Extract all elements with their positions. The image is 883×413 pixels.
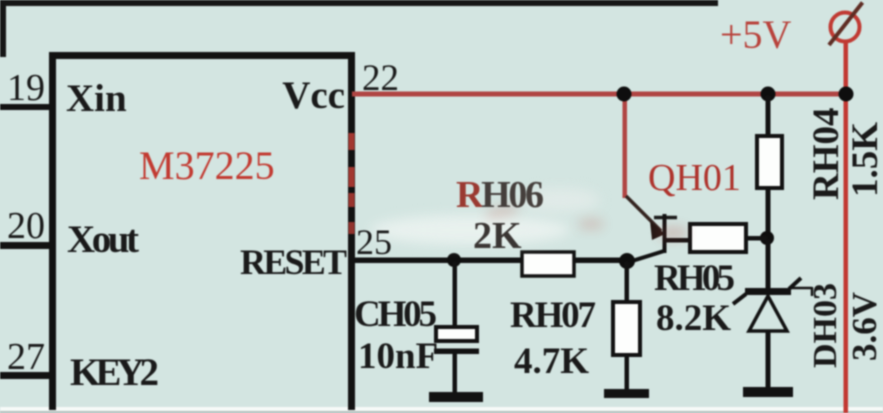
value 10nF	[358, 336, 438, 377]
pin 20 lead	[0, 242, 52, 249]
node junction dot RH04/RH05/DH03	[760, 231, 774, 245]
label RH07	[510, 295, 596, 336]
svg-text:3.6V: 3.6V	[845, 292, 883, 361]
pin number 20	[7, 205, 45, 247]
wire Vcc +5V rail (red, pin 22 to right)	[352, 92, 848, 97]
zener diode DH03	[733, 240, 801, 388]
svg-text:QH01: QH01	[648, 157, 741, 199]
svg-text:RH04: RH04	[806, 108, 847, 201]
node junction dot RESET/RH07/QH01	[619, 253, 635, 269]
wire red right-side vertical net	[844, 41, 849, 413]
svg-text:Xin: Xin	[66, 77, 127, 120]
pin label Vcc	[282, 74, 345, 117]
red watermark dashes on IC right border	[349, 133, 355, 234]
svg-text:KEY2: KEY2	[70, 351, 159, 394]
node junction dot on +5V rail at QH01 branch	[617, 87, 632, 102]
svg-text:M37225: M37225	[139, 143, 275, 188]
svg-text:RESET: RESET	[240, 242, 347, 282]
IC U1 M37225 body outline	[49, 52, 355, 410]
svg-text:RH07: RH07	[510, 295, 596, 336]
label DH03 (rotated)	[807, 283, 844, 368]
ground under CH05	[429, 392, 483, 402]
resistor RH07 (vertical)	[613, 262, 640, 390]
pin number 22	[362, 58, 399, 99]
left screenshot border	[0, 0, 6, 57]
wire red drop to QH01 emitter	[623, 94, 628, 198]
resistor RH05 (horizontal)	[666, 224, 767, 252]
svg-text:10nF: 10nF	[358, 336, 438, 377]
pin 27 lead	[0, 372, 52, 379]
svg-text:RH06: RH06	[456, 174, 544, 216]
svg-text:2K: 2K	[473, 215, 522, 257]
value 4.7K	[514, 341, 589, 382]
svg-text:+5V: +5V	[720, 12, 792, 57]
svg-text:Vcc: Vcc	[282, 74, 345, 117]
DH03 label leader line	[791, 287, 812, 296]
ground under DH03	[743, 387, 793, 397]
top screenshot border	[0, 0, 718, 6]
svg-text:1.5K: 1.5K	[845, 122, 883, 197]
pin number 25	[356, 222, 392, 262]
ground under RH07	[604, 389, 649, 398]
value 8.2K	[656, 298, 731, 339]
svg-text:19: 19	[7, 67, 45, 109]
label CH05	[354, 294, 437, 335]
node junction dot on +5V rail at RH04	[761, 87, 776, 102]
watermark smudge	[370, 188, 600, 245]
resistor RH04 (vertical)	[757, 96, 782, 238]
svg-text:Xout: Xout	[67, 218, 139, 261]
resistor RH06 (horizontal, on RESET line)	[522, 252, 574, 276]
faint red watermark marks	[486, 205, 686, 238]
svg-text:20: 20	[7, 205, 45, 247]
bottom screenshot edge	[0, 407, 883, 413]
connector symbol (circle with slash) top right	[829, 3, 863, 46]
svg-text:RH05: RH05	[654, 258, 735, 299]
label QH01	[648, 157, 741, 199]
label RH04 (rotated)	[806, 108, 847, 201]
label RH06	[456, 174, 544, 216]
pin label RESET	[240, 242, 347, 282]
node junction dot RESET/CH05	[447, 253, 461, 267]
svg-text:27: 27	[7, 336, 45, 378]
pin number 19	[7, 67, 45, 109]
svg-text:8.2K: 8.2K	[656, 298, 731, 339]
capacitor CH05	[434, 262, 479, 393]
node junction dot on +5V rail at right net	[839, 87, 854, 102]
supply label +5V	[720, 12, 792, 57]
value 1.5K (rotated)	[845, 122, 883, 197]
pin label Xin	[66, 77, 127, 120]
transistor Q1 QH01	[626, 196, 677, 262]
IC part number M37225	[139, 143, 275, 188]
svg-text:25: 25	[356, 222, 392, 262]
svg-text:22: 22	[362, 58, 399, 99]
svg-text:DH03: DH03	[807, 283, 844, 368]
value 3.6V (rotated)	[845, 292, 883, 361]
value 2K	[473, 215, 522, 257]
label RH05	[654, 258, 735, 299]
pin label KEY2	[70, 351, 159, 394]
pin label Xout	[67, 218, 139, 261]
pin 19 lead	[0, 104, 52, 110]
svg-text:CH05: CH05	[354, 294, 437, 335]
wire RESET (pin 25 to RH06/RH07 node)	[352, 258, 629, 264]
svg-text:4.7K: 4.7K	[514, 341, 589, 382]
pin number 27	[7, 336, 45, 378]
